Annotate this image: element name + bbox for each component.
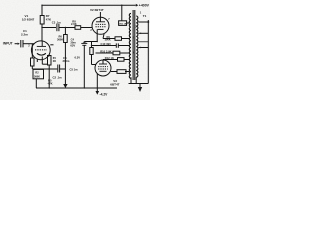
svg-text:6.3V: 6.3V <box>75 56 81 60</box>
svg-text:47K: 47K <box>48 82 53 86</box>
svg-text:C2 .1m: C2 .1m <box>53 75 63 79</box>
svg-text:-4.2V: -4.2V <box>100 92 109 96</box>
svg-text:63V: 63V <box>70 43 75 47</box>
svg-text:+ +: + + <box>83 41 87 44</box>
svg-text:R10 3.9K: R10 3.9K <box>100 49 111 53</box>
svg-text:2.2m: 2.2m <box>21 33 28 37</box>
svg-text:300m: 300m <box>63 59 70 63</box>
svg-text:C10 390: C10 390 <box>101 42 112 46</box>
svg-text:C5 1m: C5 1m <box>70 68 79 72</box>
svg-text:2.6K: 2.6K <box>71 22 77 26</box>
svg-text:R12 1K: R12 1K <box>105 56 114 60</box>
svg-text:T1: T1 <box>143 14 147 18</box>
svg-text:+400V: +400V <box>139 4 150 8</box>
svg-text:390K: 390K <box>105 37 111 41</box>
svg-text:2K: 2K <box>53 59 56 63</box>
svg-text:V2 6BT4T: V2 6BT4T <box>90 8 104 12</box>
svg-text:C3 .1m: C3 .1m <box>52 20 61 24</box>
svg-text:360K: 360K <box>57 38 63 42</box>
svg-text:1/2 6SN7: 1/2 6SN7 <box>22 18 35 22</box>
svg-text:360K: 360K <box>34 75 40 78</box>
svg-text:R11 1K: R11 1K <box>120 24 127 26</box>
svg-text:INPUT: INPUT <box>3 42 13 46</box>
svg-text:6BT4T: 6BT4T <box>110 83 119 87</box>
